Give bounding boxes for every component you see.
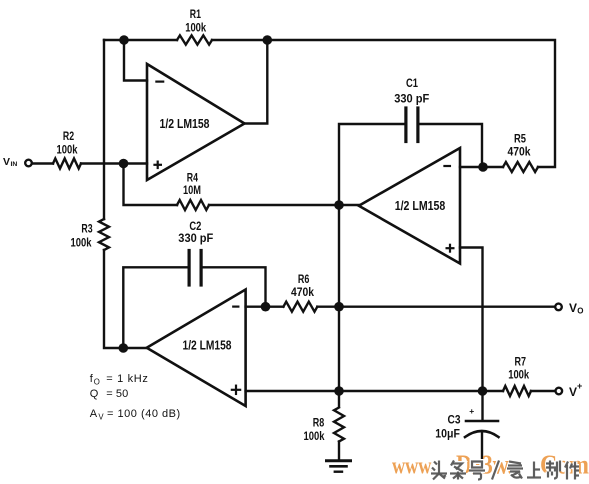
svg-text:+: + bbox=[469, 406, 474, 416]
svg-text:O: O bbox=[577, 307, 583, 316]
svg-text:330 pF: 330 pF bbox=[178, 231, 213, 245]
svg-text:+: + bbox=[577, 381, 582, 391]
svg-text:R1: R1 bbox=[190, 7, 202, 21]
svg-text:R7: R7 bbox=[515, 354, 527, 368]
svg-text:100k: 100k bbox=[508, 368, 529, 382]
svg-text:100k: 100k bbox=[71, 235, 92, 249]
svg-text:100k: 100k bbox=[185, 21, 206, 35]
svg-text:= 100 (40 dB): = 100 (40 dB) bbox=[107, 408, 180, 420]
svg-text:www.: www. bbox=[392, 454, 435, 480]
svg-text:C1: C1 bbox=[406, 76, 418, 90]
svg-text:470k: 470k bbox=[508, 144, 531, 158]
svg-text:V: V bbox=[98, 412, 104, 421]
svg-text:1/2 LM158: 1/2 LM158 bbox=[395, 198, 446, 213]
svg-text:10M: 10M bbox=[183, 183, 201, 197]
svg-text:A: A bbox=[90, 408, 98, 420]
svg-text:470k: 470k bbox=[291, 285, 314, 299]
svg-text:R5: R5 bbox=[514, 131, 526, 145]
svg-text:O: O bbox=[94, 377, 100, 386]
svg-text:R8: R8 bbox=[313, 416, 325, 430]
svg-text:R3: R3 bbox=[81, 221, 93, 235]
svg-text:1/2 LM158: 1/2 LM158 bbox=[183, 338, 232, 353]
svg-text:V: V bbox=[3, 156, 10, 168]
svg-text:V: V bbox=[569, 385, 577, 399]
svg-text:R2: R2 bbox=[63, 129, 75, 143]
svg-text:C3: C3 bbox=[448, 413, 461, 427]
svg-text:= 50: = 50 bbox=[106, 388, 128, 400]
svg-text:= 1 kHz: = 1 kHz bbox=[106, 373, 148, 385]
svg-text:330 pF: 330 pF bbox=[394, 92, 429, 106]
svg-text:R6: R6 bbox=[298, 272, 310, 286]
svg-text:1/2 LM158: 1/2 LM158 bbox=[160, 116, 210, 131]
svg-text:100k: 100k bbox=[304, 429, 325, 443]
svg-text:Q: Q bbox=[90, 388, 99, 400]
svg-text:100k: 100k bbox=[57, 142, 78, 156]
svg-text:V: V bbox=[569, 301, 577, 315]
svg-text:10μF: 10μF bbox=[435, 426, 460, 440]
svg-text:IN: IN bbox=[11, 161, 18, 168]
